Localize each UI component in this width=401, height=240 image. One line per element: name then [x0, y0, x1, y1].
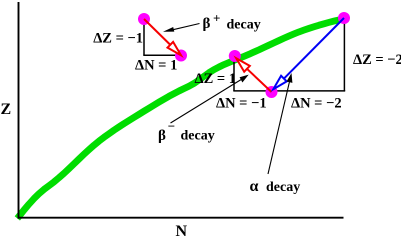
bracket for deltaZ=-2 (vertical, below top-right dot)	[343, 24, 345, 91]
svg-text:ΔZ = 1: ΔZ = 1	[195, 71, 237, 87]
beta+ decay arrow (red, open head)	[144, 19, 181, 55]
svg-text:Z: Z	[1, 101, 12, 118]
pointer arrow to beta- decay	[171, 75, 249, 123]
pointer arrow to beta+ decay	[163, 24, 200, 32]
green stability curve	[17, 19, 344, 219]
svg-text:decay: decay	[266, 180, 300, 195]
svg-text:decay: decay	[181, 129, 215, 144]
Z axis (vertical)	[18, 2, 20, 219]
svg-text:ΔZ = −2: ΔZ = −2	[353, 52, 401, 68]
svg-text:decay: decay	[227, 18, 261, 33]
svg-text:ΔN = −2: ΔN = −2	[291, 96, 342, 112]
N axis (horizontal)	[18, 217, 344, 219]
svg-text:−: −	[168, 119, 175, 134]
svg-text:ΔZ = −1: ΔZ = −1	[93, 31, 143, 47]
nucleus dot D5 (top right, alpha parent)	[338, 12, 350, 24]
svg-text:ΔN = 1: ΔN = 1	[135, 57, 177, 73]
svg-text:α: α	[250, 178, 259, 195]
svg-text:β: β	[158, 128, 166, 144]
alpha decay arrow (blue, open head)	[273, 18, 344, 89]
bracket for deltaZ=-1 (vertical)	[143, 25, 145, 56]
pointer arrow to alpha decay	[268, 73, 292, 174]
svg-text:ΔN = −1: ΔN = −1	[216, 95, 267, 111]
svg-text:+: +	[213, 11, 220, 26]
beta- decay arrow (red, open head)	[236, 58, 271, 92]
bracket for deltaN=1 (horizontal)	[143, 54, 181, 56]
bracket baseline for deltaN=-1 and deltaN=-2 (horizontal)	[233, 90, 345, 92]
svg-text:N: N	[176, 223, 188, 237]
nucleus dot D1 (beta+ parent)	[138, 13, 150, 25]
nucleus dot D4 (alpha daughter / beta- parent)	[266, 86, 278, 98]
svg-text:β: β	[203, 16, 211, 32]
nucleus dot D3 (on curve, beta- daughter)	[229, 50, 241, 62]
bracket for deltaZ=1 (vertical, below dot on curve)	[233, 62, 235, 91]
nucleus dot D2 (beta+ daughter)	[175, 50, 187, 62]
